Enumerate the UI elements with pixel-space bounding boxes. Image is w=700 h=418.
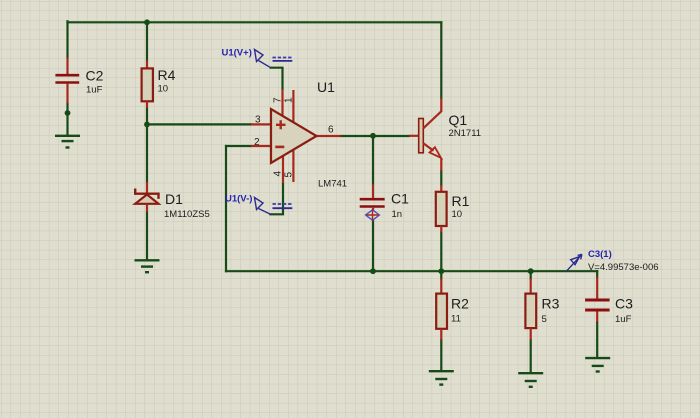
svg-text:D1: D1 — [165, 191, 183, 207]
node C1 rail — [370, 268, 376, 274]
wire Q1 collector to rail — [440, 22, 442, 98]
wire bottom rail — [226, 270, 597, 272]
wire C1 bottom — [372, 221, 374, 271]
svg-text:U1(V+): U1(V+) — [222, 47, 252, 58]
diode D1 zener 1M110ZS5 — [135, 182, 210, 220]
svg-text:R2: R2 — [451, 296, 469, 312]
capacitor C1 — [360, 184, 409, 220]
wire feedback vertical — [225, 146, 227, 271]
terminal U1(V+) — [222, 47, 293, 67]
resistor R1 — [436, 185, 470, 233]
wire output — [341, 135, 409, 137]
wire C1 top — [372, 136, 374, 184]
svg-text:1uF: 1uF — [615, 314, 632, 325]
capacitor C3 — [585, 277, 633, 325]
wire rail to C3 — [596, 271, 598, 277]
ground C3 — [585, 358, 610, 371]
resistor R4 — [142, 60, 176, 108]
svg-text:1n: 1n — [392, 209, 403, 220]
node R1 R2 rail — [438, 268, 444, 274]
resistor R3 — [525, 279, 559, 341]
svg-text:LM741: LM741 — [318, 179, 347, 190]
svg-text:2N1711: 2N1711 — [449, 128, 482, 139]
node R4 pin3 — [144, 122, 150, 128]
wire rail to R2 — [440, 271, 442, 278]
wire R1 to rail — [440, 233, 442, 272]
svg-text:R3: R3 — [542, 296, 560, 312]
svg-text:C2: C2 — [86, 68, 104, 84]
wire node to D1 — [146, 124, 148, 182]
transistor Q1 2N1711 — [409, 98, 481, 171]
svg-text:V=4.99573e-006: V=4.99573e-006 — [588, 262, 659, 273]
svg-text:5: 5 — [284, 172, 295, 178]
ground D1 — [135, 260, 160, 272]
svg-text:1: 1 — [284, 97, 295, 103]
resistor R2 — [436, 279, 469, 341]
wire V+ terminal link — [271, 68, 283, 89]
ground C2 — [55, 136, 80, 148]
svg-text:C3: C3 — [615, 296, 633, 312]
svg-text:R1: R1 — [452, 193, 470, 209]
wire top rail — [68, 21, 442, 23]
svg-text:C3(1): C3(1) — [588, 249, 612, 260]
wire R4 top — [146, 21, 148, 60]
op-amp U1 LM741 — [251, 79, 347, 190]
svg-text:10: 10 — [452, 209, 463, 220]
node top rail R4 — [144, 19, 150, 25]
terminal U1(V-) — [225, 193, 292, 214]
svg-text:C1: C1 — [391, 191, 409, 207]
svg-text:Q1: Q1 — [449, 112, 468, 128]
wire R4 bottom to node — [146, 108, 148, 124]
wire D1 to ground — [146, 212, 148, 260]
node C2 bottom — [65, 110, 71, 116]
svg-text:2: 2 — [254, 137, 260, 148]
wire Q1 emitter to R1 — [440, 171, 442, 185]
wire V- terminal link — [271, 183, 284, 214]
svg-text:7: 7 — [273, 97, 284, 103]
svg-text:4: 4 — [273, 171, 284, 177]
marker origin diamond on C1 — [366, 210, 380, 221]
wire pin2 feedback horizontal — [226, 145, 251, 147]
svg-text:5: 5 — [542, 314, 547, 325]
svg-text:1uF: 1uF — [86, 85, 103, 96]
probe arrow C3(1) — [567, 249, 659, 273]
svg-text:10: 10 — [158, 84, 169, 95]
svg-text:11: 11 — [451, 314, 461, 325]
wire R2 to ground — [440, 340, 442, 370]
svg-text:R4: R4 — [158, 67, 176, 83]
svg-text:U1(V-): U1(V-) — [225, 193, 252, 204]
wire node to pin3 — [147, 123, 251, 125]
wire C3 to ground — [596, 322, 598, 357]
svg-text:U1: U1 — [317, 79, 335, 95]
capacitor C2 — [55, 58, 103, 104]
svg-text:6: 6 — [328, 125, 334, 136]
ground R3 — [518, 373, 543, 387]
wire rail to R3 — [530, 271, 532, 278]
svg-text:3: 3 — [255, 114, 261, 125]
wire C2 top — [66, 21, 68, 57]
node output C1 — [370, 133, 376, 139]
wire R3 to ground — [530, 340, 532, 372]
svg-text:1M110ZS5: 1M110ZS5 — [164, 209, 210, 220]
node R3 rail — [528, 268, 534, 274]
ground R2 — [429, 371, 454, 384]
wire C2 bottom to ground — [66, 103, 68, 135]
